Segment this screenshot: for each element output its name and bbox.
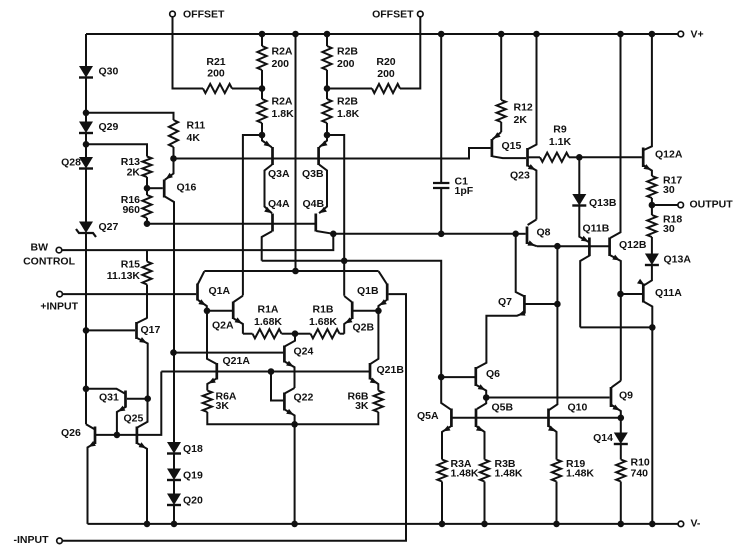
diode Q13A: [645, 254, 691, 266]
diode Q30: [79, 66, 119, 78]
svg-text:Q22: Q22: [294, 392, 314, 404]
svg-text:R2A: R2A: [272, 46, 293, 58]
node: V- R3A: [439, 521, 446, 528]
wire: to R13: [86, 144, 147, 156]
resistor R11 4K: [169, 120, 205, 148]
svg-text:Q9: Q9: [619, 390, 633, 402]
svg-text:1.48K: 1.48K: [566, 468, 594, 480]
svg-text:1.8K: 1.8K: [337, 108, 360, 120]
wire: Q20 to V-: [173, 506, 175, 524]
svg-text:1.68K: 1.68K: [309, 316, 337, 328]
svg-text:R2B: R2B: [337, 46, 358, 58]
transistor Q15: [492, 132, 526, 158]
svg-text:200: 200: [337, 58, 355, 70]
node: Q17 emitter junction: [144, 395, 151, 402]
wire: V+ top rail: [86, 33, 678, 35]
svg-text:Q1B: Q1B: [357, 285, 379, 297]
svg-text:30: 30: [663, 184, 675, 196]
node: Q6 base junction: [438, 374, 445, 381]
transistor Q2B: [344, 296, 374, 334]
svg-text:Q18: Q18: [183, 443, 203, 455]
wire: Q31 base: [127, 398, 148, 400]
node: Q8 base junction: [512, 231, 519, 238]
svg-text:Q12A: Q12A: [655, 149, 683, 161]
resistor R17 30: [647, 175, 682, 199]
terminal OFFSET (right): [372, 9, 423, 21]
svg-text:Q11B: Q11B: [583, 223, 610, 235]
svg-text:BW: BW: [31, 242, 49, 254]
wire: R2B bottom: [326, 123, 328, 135]
node: bus / Q2B riser junction: [341, 258, 348, 265]
svg-text:Q10: Q10: [568, 402, 588, 414]
zener diode Q27: [76, 221, 119, 237]
wire: R18 to Q13A: [651, 237, 653, 254]
wire: Q11B collector to V- riser: [580, 326, 652, 328]
node: Q1B emitter junction: [375, 308, 382, 315]
node: Q7 base junction: [554, 301, 561, 308]
svg-text:OFFSET: OFFSET: [183, 9, 225, 21]
svg-text:V-: V-: [691, 518, 701, 530]
svg-text:Q24: Q24: [294, 346, 314, 358]
transistor Q1A: [198, 271, 231, 311]
wire: Q6 base: [441, 376, 474, 378]
node: Q4B collector junction: [330, 231, 337, 238]
wire: Q11B/Q12B base line: [537, 245, 609, 247]
svg-text:740: 740: [631, 468, 649, 480]
node: R9/Q13B junction: [576, 154, 583, 161]
node: R11/Q16 emitter junction: [170, 155, 177, 162]
wire: input pair collector bus: [204, 270, 378, 272]
diode Q19: [167, 469, 203, 482]
svg-text:CONTROL: CONTROL: [23, 256, 75, 268]
terminal BW CONTROL: [23, 242, 75, 268]
svg-text:2K: 2K: [514, 114, 528, 126]
diode Q28: [61, 157, 93, 169]
node: Q30-Q29 junction: [83, 110, 90, 117]
wire: R11 bottom: [173, 147, 175, 159]
wire: left bias chain: [85, 34, 87, 424]
svg-text:Q31: Q31: [99, 392, 119, 404]
wire: R2B node to Q2B collector riser: [327, 135, 344, 296]
node: Q10 collector junction: [554, 243, 561, 250]
wire: R20 to R2B node: [327, 88, 372, 90]
transistor Q5A: [417, 409, 451, 460]
resistor R2B 1.8K: [322, 96, 359, 124]
svg-text:960: 960: [122, 204, 140, 216]
svg-text:Q23: Q23: [510, 170, 530, 182]
node: central rail top: [292, 31, 299, 38]
wire: Q21A/Q21B base bus: [161, 371, 369, 373]
diode Q29: [79, 121, 119, 133]
wire: offset1 to R21: [173, 17, 204, 88]
svg-text:Q12B: Q12B: [619, 239, 647, 251]
transistor Q26: [61, 424, 96, 524]
transistor Q11A: [637, 279, 682, 524]
node: Q17 base junction: [83, 327, 90, 334]
svg-text:Q15: Q15: [502, 140, 522, 152]
diode Q18: [167, 442, 203, 455]
wire: Q16 base: [147, 187, 163, 189]
svg-text:200: 200: [377, 68, 395, 80]
terminal OUTPUT: [652, 199, 733, 211]
wire: offset2 to R20: [400, 17, 420, 88]
wire: V- rail: [88, 523, 678, 525]
wire: R9 to Q12A base: [579, 156, 642, 158]
svg-text:OFFSET: OFFSET: [372, 9, 414, 21]
node: Q14 anode junction: [618, 415, 625, 422]
svg-text:3K: 3K: [355, 400, 369, 412]
node: Q31 emitter junction: [114, 432, 121, 439]
terminal OFFSET (left): [170, 9, 225, 21]
wire: Q24 base line: [174, 352, 284, 354]
terminal -INPUT: [14, 534, 63, 546]
transistor Q24: [284, 334, 313, 388]
wire: Q5/Q10 base bus: [451, 417, 620, 419]
svg-text:Q21A: Q21A: [223, 355, 251, 367]
resistor R13 2K: [121, 156, 152, 179]
node: V- R3B: [481, 521, 488, 528]
transistor Q25: [124, 399, 148, 524]
svg-text:Q2A: Q2A: [212, 320, 234, 332]
svg-text:R2B: R2B: [337, 96, 358, 108]
resistor R16 960: [121, 194, 152, 218]
node: V- Q22: [291, 521, 298, 528]
resistor R19 1.48K: [552, 458, 595, 524]
node: Q23 collector top: [533, 31, 540, 38]
wire: Q2B base: [353, 310, 378, 312]
svg-text:Q28: Q28: [61, 157, 81, 169]
wire: Q7 base: [525, 303, 558, 305]
node: Q12B collector top: [617, 31, 624, 38]
svg-text:Q30: Q30: [99, 66, 119, 78]
wire: Q7 collector feed: [516, 234, 524, 296]
svg-text:Q2B: Q2B: [353, 322, 375, 334]
wire: Q22 base: [271, 372, 283, 401]
resistor R10 740: [616, 445, 650, 524]
transistor Q22: [284, 388, 313, 524]
resistor R21: [203, 56, 232, 93]
node: Q16 collector / Q24 base junction: [170, 349, 177, 356]
resistor R1B 1.68K: [295, 304, 340, 339]
svg-text:1.48K: 1.48K: [495, 468, 523, 480]
wire: Q18-Q19: [173, 455, 175, 469]
node: output junction: [649, 202, 656, 209]
resistor R3A 1.48K: [437, 458, 479, 524]
transistor Q9: [611, 381, 633, 418]
transistor Q12A: [643, 34, 683, 176]
resistor R15 11.13K: [107, 250, 152, 318]
wire: Q2A emitter to R1A: [243, 333, 253, 335]
capacitor C1: [433, 34, 474, 234]
wire: R6B bottom: [295, 412, 379, 424]
node: R2A top: [259, 31, 266, 38]
terminal V-: [678, 518, 701, 530]
node: V- Q25: [144, 521, 151, 528]
svg-text:1.48K: 1.48K: [451, 468, 479, 480]
wire: Q2A base: [207, 310, 232, 312]
svg-text:Q17: Q17: [141, 324, 161, 336]
wire: Q19-Q20: [173, 481, 175, 494]
svg-text:R1A: R1A: [257, 304, 278, 316]
wire: Q5A collector feed: [441, 377, 450, 409]
wire: to R11: [86, 113, 174, 120]
resistor R2A 200: [257, 46, 293, 71]
node: V- R19: [553, 521, 560, 528]
diode Q13B: [572, 157, 617, 209]
svg-text:R20: R20: [376, 56, 395, 68]
wire: Q13A to Q11A: [644, 266, 652, 285]
wire: R13 bottom: [146, 177, 148, 195]
svg-text:R21: R21: [206, 56, 225, 68]
wire: -input line to Q1B base: [63, 294, 406, 541]
wire: Q3A/Q3B base line: [174, 148, 491, 159]
wire: Q11A base: [621, 293, 643, 295]
svg-text:1.1K: 1.1K: [549, 136, 572, 148]
svg-text:3K: 3K: [216, 400, 230, 412]
transistor Q2A: [212, 296, 243, 334]
svg-text:Q7: Q7: [498, 296, 512, 308]
wire: R2A bottom: [261, 123, 263, 135]
node: V- Q11A: [649, 521, 656, 528]
svg-text:R15: R15: [121, 259, 140, 271]
resistor R9 1.1K: [528, 124, 578, 162]
svg-text:R1B: R1B: [312, 304, 333, 316]
wire: R1A to node: [282, 333, 296, 335]
transistor Q10: [548, 246, 588, 459]
svg-text:Q3B: Q3B: [302, 168, 324, 180]
transistor Q12B: [610, 34, 647, 381]
wire: R2B mid: [326, 70, 328, 99]
transistor Q31: [99, 391, 126, 435]
svg-text:Q19: Q19: [183, 470, 203, 482]
node: Q22 base tap: [268, 368, 275, 375]
svg-text:R9: R9: [553, 124, 567, 136]
node: R2B top: [324, 31, 331, 38]
wire: R17 to output node: [651, 198, 653, 215]
wire: BW control line: [62, 234, 333, 250]
svg-text:-INPUT: -INPUT: [14, 534, 50, 546]
svg-text:30: 30: [663, 223, 675, 235]
transistor Q4B: [303, 198, 334, 234]
svg-text:Q4B: Q4B: [303, 198, 325, 210]
node: R12 top: [498, 31, 505, 38]
resistor R1A 1.68K: [253, 304, 283, 339]
node: R2B/R20 junction: [324, 85, 331, 92]
node: R13/R16 junction: [144, 185, 151, 192]
node: R16 bottom junction: [144, 220, 151, 227]
svg-text:R11: R11: [187, 120, 206, 132]
wire: R2A mid: [261, 70, 263, 99]
transistor Q8: [527, 220, 551, 247]
terminal V+: [678, 29, 704, 41]
wire: R2B top stub: [326, 34, 328, 46]
transistor Q21A: [207, 311, 250, 391]
resistor R6A 3K: [203, 391, 237, 413]
terminal +INPUT: [40, 291, 78, 312]
node: Q12A collector top: [649, 31, 656, 38]
resistor R2B 200: [322, 46, 358, 71]
wire: R6A bottom: [207, 412, 294, 424]
transistor Q23: [510, 34, 537, 220]
svg-text:Q11A: Q11A: [655, 287, 682, 299]
svg-text:1.68K: 1.68K: [254, 316, 282, 328]
svg-text:Q4A: Q4A: [268, 198, 290, 210]
transistor Q21B: [370, 311, 405, 391]
node: Q6 emitter junction: [483, 394, 490, 401]
wire: Q17 base: [86, 329, 135, 331]
node: Q11A base junction: [617, 291, 624, 298]
wire: Q4A/Q4B base line: [147, 223, 315, 225]
svg-text:200: 200: [272, 58, 290, 70]
wire: R2A node to Q2A collector riser: [243, 135, 262, 296]
node: V- R10: [618, 521, 625, 528]
wire: Q8 base: [516, 233, 526, 235]
wire: R2A top stub: [261, 34, 263, 46]
svg-text:Q3A: Q3A: [268, 168, 290, 180]
node: Q11A collector junction: [649, 324, 656, 331]
transistor Q5B: [476, 402, 514, 460]
svg-text:Q5B: Q5B: [492, 402, 514, 414]
svg-text:+INPUT: +INPUT: [40, 301, 78, 313]
resistor R12 2K: [497, 34, 533, 132]
wire: +input line: [63, 293, 196, 295]
svg-text:Q6: Q6: [486, 368, 500, 380]
resistor R18 30: [647, 214, 682, 238]
wire: Q4 collector bus to Q8 base: [333, 233, 515, 235]
svg-text:OUTPUT: OUTPUT: [690, 199, 734, 211]
transistor Q3B: [302, 135, 328, 213]
resistor R2A 1.8K: [257, 96, 294, 124]
svg-text:R12: R12: [514, 102, 533, 114]
resistor R20: [372, 56, 400, 93]
svg-text:11.13K: 11.13K: [107, 270, 141, 282]
svg-text:1pF: 1pF: [455, 185, 474, 197]
wire: Q4A collector bus: [262, 261, 442, 377]
resistor R6B 3K: [347, 391, 382, 413]
node: central rail bottom junction: [292, 268, 299, 275]
svg-text:Q20: Q20: [183, 495, 203, 507]
svg-text:Q13A: Q13A: [664, 254, 692, 266]
svg-text:Q1A: Q1A: [209, 285, 231, 297]
transistor Q16: [164, 159, 196, 353]
node: Q29-Q28 junction: [83, 141, 90, 148]
wire: R1B to Q2B emitter: [340, 333, 345, 335]
svg-text:Q8: Q8: [537, 227, 551, 239]
transistor Q17: [137, 318, 161, 399]
svg-text:2K: 2K: [127, 167, 141, 179]
transistor Q6: [476, 367, 500, 398]
svg-text:4K: 4K: [187, 132, 201, 144]
diode Q14: [593, 418, 628, 444]
svg-text:Q16: Q16: [177, 182, 197, 194]
wire: Q25/Q26 base line: [95, 372, 161, 435]
wire: Q9 base line: [486, 397, 609, 399]
svg-text:Q25: Q25: [124, 413, 144, 425]
node: R2A/R21 junction: [259, 85, 266, 92]
resistor R3B 1.48K: [480, 458, 523, 524]
diode Q20: [167, 494, 203, 507]
wire: Q13B to Q11B: [579, 207, 589, 243]
node: R2A bottom junction: [259, 132, 266, 139]
transistor Q3A: [262, 135, 290, 213]
node: R2B bottom junction: [324, 132, 331, 139]
node: C1 top: [438, 31, 445, 38]
node: Q31 collector junction: [83, 386, 90, 393]
wire: R21 to R2A node: [232, 88, 262, 90]
node: R1 midpoint junction: [292, 330, 299, 337]
svg-text:Q29: Q29: [99, 121, 119, 133]
svg-text:V+: V+: [691, 29, 704, 41]
svg-text:R2A: R2A: [272, 96, 293, 108]
transistor Q4A: [262, 198, 290, 261]
node: Q1A emitter junction: [204, 308, 211, 315]
node: C1 bottom junction: [438, 231, 445, 238]
svg-text:200: 200: [207, 68, 225, 80]
svg-text:Q21B: Q21B: [377, 364, 405, 376]
wire: Q5B collector feed: [477, 398, 486, 409]
svg-text:Q13B: Q13B: [589, 197, 617, 209]
svg-text:Q5A: Q5A: [417, 410, 439, 422]
svg-text:Q27: Q27: [99, 221, 119, 233]
wire: Q31 collector feed: [86, 389, 125, 394]
transistor Q11B: [580, 223, 610, 328]
svg-text:Q26: Q26: [61, 427, 81, 439]
transistor Q7: [475, 295, 526, 369]
transistor Q1B: [357, 271, 387, 311]
svg-text:Q14: Q14: [593, 432, 613, 444]
node: Q22 emitter junction: [291, 421, 298, 428]
wire: central rail: [295, 34, 297, 271]
wire: Q16 collector chain: [173, 353, 175, 442]
svg-text:1.8K: 1.8K: [272, 108, 295, 120]
wire: R16 bottom: [146, 218, 148, 224]
node: V- Q20: [171, 521, 178, 528]
